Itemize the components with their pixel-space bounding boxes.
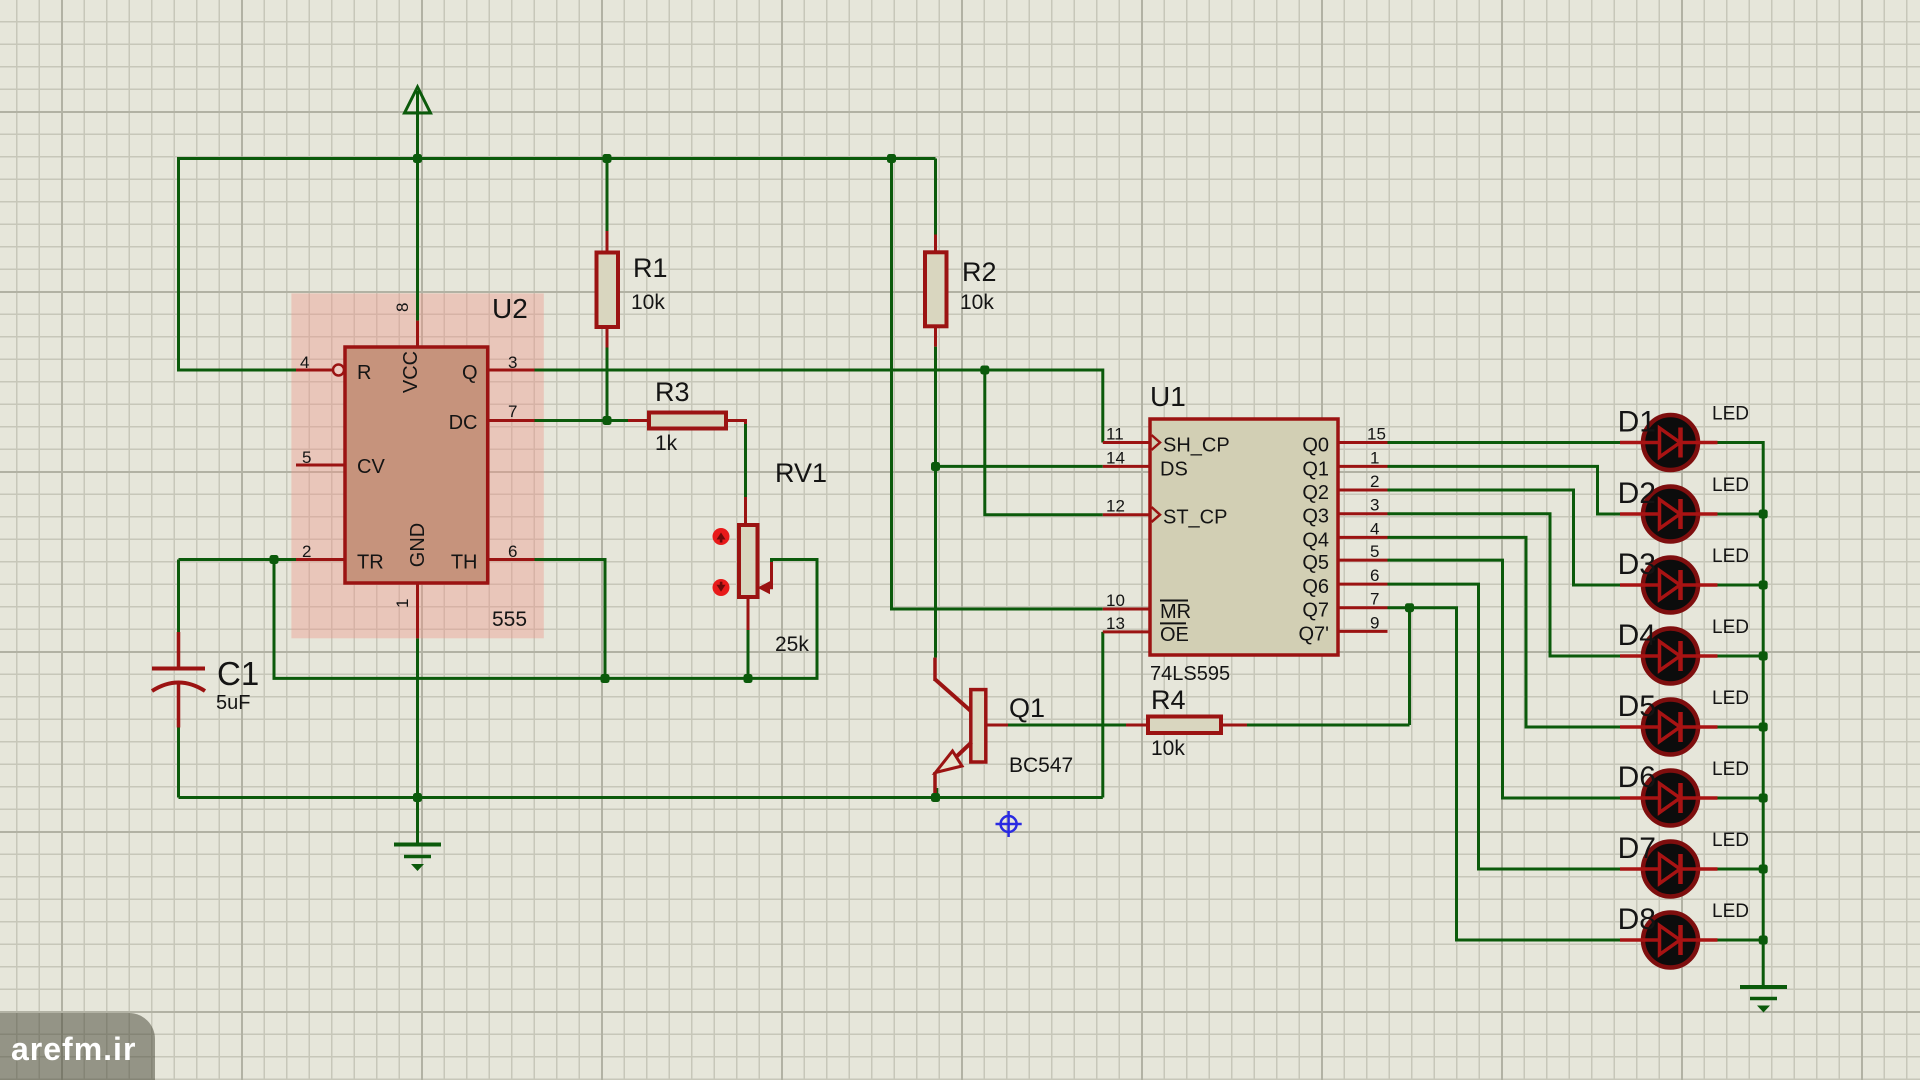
svg-text:13: 13	[1106, 614, 1125, 633]
LED D2	[1618, 475, 1749, 542]
U1 pin 13 OE	[1103, 614, 1189, 646]
svg-text:R1: R1	[633, 253, 668, 283]
LED D6	[1618, 759, 1749, 826]
wire 555 pin1 to ground rail	[416, 638, 419, 797]
LED cathode bus to ground	[1718, 443, 1764, 988]
wire OE to ground rail	[1101, 632, 1104, 798]
U1 pin 10 MR	[1103, 591, 1191, 623]
svg-text:1k: 1k	[655, 432, 678, 455]
svg-text:Q7': Q7'	[1299, 623, 1330, 645]
svg-text:OE: OE	[1160, 624, 1189, 646]
svg-text:R2: R2	[962, 257, 997, 287]
svg-text:25k: 25k	[775, 633, 809, 656]
svg-text:D5: D5	[1618, 690, 1656, 723]
wire Q1 base to R4	[1008, 724, 1126, 727]
svg-text:LED: LED	[1712, 830, 1749, 851]
svg-text:D4: D4	[1618, 619, 1656, 652]
svg-text:Q6: Q6	[1302, 576, 1329, 598]
svg-text:CV: CV	[357, 456, 385, 478]
fanout Q2 wire to D3	[1388, 490, 1621, 585]
node bus / D5	[1759, 723, 1768, 732]
svg-text:5: 5	[302, 448, 311, 467]
svg-text:D1: D1	[1618, 406, 1656, 439]
wire C1 top lead	[177, 560, 180, 633]
fanout Q0 wire to D1	[1388, 441, 1621, 444]
svg-text:12: 12	[1106, 497, 1125, 516]
node bus / D2	[1759, 510, 1768, 519]
resistor R1	[597, 231, 668, 348]
shift register U1 74LS595 body	[1150, 381, 1338, 685]
svg-text:Q1: Q1	[1009, 693, 1045, 723]
svg-text:LED: LED	[1712, 901, 1749, 922]
U2 pin 2 TR stub	[296, 542, 345, 561]
svg-text:MR: MR	[1160, 601, 1191, 623]
U2 pin names	[357, 351, 478, 574]
svg-text:Q4: Q4	[1302, 529, 1329, 551]
svg-text:15: 15	[1367, 425, 1386, 444]
svg-text:D2: D2	[1618, 477, 1656, 510]
U2 pin 5 CV stub	[296, 448, 345, 467]
op-amp-style 555 timer U2 body	[345, 293, 528, 631]
node VCC rail / MR branch	[887, 154, 896, 163]
node R2 / DS	[931, 462, 940, 471]
wire Q7 branch down to R4	[1408, 608, 1411, 725]
svg-text:Q2: Q2	[1302, 482, 1329, 504]
svg-text:RV1: RV1	[775, 458, 827, 488]
svg-text:Q: Q	[462, 362, 478, 384]
svg-text:3: 3	[1370, 496, 1379, 515]
svg-text:2: 2	[302, 542, 311, 561]
svg-text:BC547: BC547	[1009, 754, 1073, 777]
potentiometer RV1	[739, 458, 827, 656]
power VCC arrow	[405, 87, 431, 321]
svg-text:U2: U2	[492, 293, 528, 324]
svg-text:6: 6	[508, 542, 517, 561]
wire VCC to U1 MR	[892, 159, 1103, 610]
svg-text:Q0: Q0	[1302, 435, 1329, 457]
U1 output pins Q0-Q7' stubs and numbers	[1338, 425, 1388, 633]
wire R2 top lead to rail	[934, 159, 937, 235]
node bus / D7	[1759, 865, 1768, 874]
svg-text:LED: LED	[1712, 546, 1749, 567]
highlight box around U2	[291, 293, 543, 638]
svg-text:LED: LED	[1712, 759, 1749, 780]
svg-text:14: 14	[1106, 448, 1125, 467]
fanout Q5 wire to D6	[1388, 560, 1621, 798]
svg-text:555: 555	[492, 608, 527, 631]
svg-text:LED: LED	[1712, 617, 1749, 638]
svg-text:LED: LED	[1712, 404, 1749, 425]
svg-text:C1: C1	[217, 655, 259, 692]
transistor Q1	[935, 658, 1073, 795]
LED D7	[1618, 830, 1749, 897]
origin marker (blue crosshair)	[996, 811, 1022, 837]
node VCC rail / R1	[603, 154, 612, 163]
LED D3	[1618, 546, 1749, 613]
wire R3 to RV1 top	[744, 421, 747, 498]
wire bottom ground rail	[179, 796, 1103, 799]
svg-text:DC: DC	[449, 412, 478, 434]
wire 555 Q output to U1 SH_CP	[535, 370, 1103, 443]
svg-text:SH_CP: SH_CP	[1163, 435, 1230, 457]
RV1 up button	[713, 528, 730, 545]
U1 output pin names	[1299, 435, 1330, 646]
U1 pin 11 SH_CP	[1103, 425, 1230, 457]
wire C1 bottom to ground rail	[177, 728, 180, 798]
U2 pin 8 VCC stub	[393, 303, 418, 347]
ground (right, LED bus)	[1740, 987, 1787, 1013]
resistor R4	[1126, 685, 1247, 760]
svg-text:Q3: Q3	[1302, 506, 1329, 528]
svg-text:R4: R4	[1151, 685, 1186, 715]
svg-text:4: 4	[300, 353, 309, 372]
wire VCC rail top with left drop to pin 4 row	[179, 159, 936, 371]
svg-text:DS: DS	[1160, 458, 1188, 480]
svg-text:D3: D3	[1618, 548, 1656, 581]
svg-text:D8: D8	[1618, 903, 1656, 936]
fanout Q6 wire to D7	[1388, 584, 1621, 869]
resistor R2	[925, 235, 997, 347]
LED D5	[1618, 688, 1749, 755]
node bus / D3	[1759, 581, 1768, 590]
svg-text:9: 9	[1370, 613, 1379, 632]
node TR wire / bottom net	[270, 555, 279, 564]
wire R1 top lead to rail	[606, 159, 609, 232]
node bus / D6	[1759, 794, 1768, 803]
svg-text:4: 4	[1370, 519, 1379, 538]
svg-text:Q5: Q5	[1302, 552, 1329, 574]
wire R1 bottom to DC node	[606, 348, 609, 421]
svg-text:8: 8	[393, 303, 412, 312]
svg-text:TH: TH	[451, 552, 478, 574]
node ground rail / 555 pin1	[413, 793, 422, 802]
U2 pin 1 GND stub	[393, 583, 418, 638]
U2 pin 4 R stub with bubble	[296, 353, 344, 376]
wire RV1 bottom lead to net	[747, 630, 750, 678]
svg-text:3: 3	[508, 353, 517, 372]
fanout Q7 wire to D8	[1388, 608, 1621, 940]
fanout Q1 wire to D2	[1388, 466, 1621, 514]
node DC / R1 / R3	[603, 416, 612, 425]
wire R4 to Q7 branch	[1247, 724, 1410, 727]
svg-text:D6: D6	[1618, 761, 1656, 794]
svg-text:7: 7	[508, 402, 517, 421]
U2 pin 3 Q stub	[488, 353, 535, 372]
svg-text:74LS595: 74LS595	[1150, 663, 1230, 685]
wire Q branch to U1 ST_CP	[985, 370, 1103, 515]
svg-text:10: 10	[1106, 591, 1125, 610]
wire ground stem left	[416, 798, 419, 845]
watermark arefm.ir	[0, 1013, 155, 1080]
node Q output / ST_CP branch	[980, 366, 989, 375]
node TH branch / bottom net	[601, 674, 610, 683]
svg-text:D7: D7	[1618, 832, 1656, 865]
svg-text:U1: U1	[1150, 381, 1186, 412]
wire TR row from C1 to 555 pin 2	[179, 558, 297, 561]
fanout Q3 wire to D4	[1388, 514, 1621, 656]
RV1 down button	[713, 579, 730, 596]
ground (left, 555)	[394, 845, 441, 872]
LED D8	[1618, 901, 1749, 968]
svg-text:GND: GND	[407, 523, 429, 567]
node VCC rail / VCC stem	[413, 154, 422, 163]
svg-text:10k: 10k	[960, 291, 994, 314]
svg-text:LED: LED	[1712, 688, 1749, 709]
U2 pin 6 TH stub	[488, 542, 535, 561]
fanout Q4 wire to D5	[1388, 537, 1621, 727]
svg-text:1: 1	[393, 599, 412, 608]
svg-text:ST_CP: ST_CP	[1163, 507, 1227, 529]
node RV1 bottom / bottom net	[744, 674, 753, 683]
svg-text:R3: R3	[655, 377, 690, 407]
capacitor C1	[152, 632, 259, 728]
node Q7 / R4 branch	[1405, 603, 1414, 612]
svg-text:10k: 10k	[1151, 737, 1185, 760]
LED D4	[1618, 617, 1749, 684]
svg-text:1: 1	[1370, 448, 1379, 467]
svg-text:R: R	[357, 362, 371, 384]
U1 pin 12 ST_CP	[1103, 497, 1228, 529]
U1 pin 14 DS	[1103, 448, 1188, 480]
svg-text:10k: 10k	[631, 291, 665, 314]
LED D1	[1618, 404, 1749, 471]
svg-text:5: 5	[1370, 542, 1379, 561]
svg-text:TR: TR	[357, 552, 384, 574]
svg-text:6: 6	[1370, 566, 1379, 585]
wire R2 bottom to DS and Q1 collector	[934, 347, 937, 658]
wire Q1 emitter to ground rail	[935, 788, 938, 798]
svg-text:LED: LED	[1712, 475, 1749, 496]
svg-text:Q7: Q7	[1302, 600, 1329, 622]
svg-text:Q1: Q1	[1302, 458, 1329, 480]
svg-text:5uF: 5uF	[216, 692, 250, 714]
node bus / D8	[1759, 936, 1768, 945]
node ground rail / Q1 emitter	[931, 793, 940, 802]
wire DC to R3	[535, 419, 629, 422]
wire DS row	[936, 465, 1103, 468]
svg-text:7: 7	[1370, 590, 1379, 609]
resistor R3	[628, 377, 746, 455]
U2 pin 7 DC stub	[488, 402, 535, 421]
wire TH to bottom node	[535, 560, 606, 679]
svg-text:VCC: VCC	[400, 351, 422, 393]
svg-text:2: 2	[1370, 472, 1379, 491]
svg-text:11: 11	[1106, 425, 1124, 444]
wire TR/TH/RV1 bottom net	[274, 560, 817, 679]
node bus / D4	[1759, 652, 1768, 661]
